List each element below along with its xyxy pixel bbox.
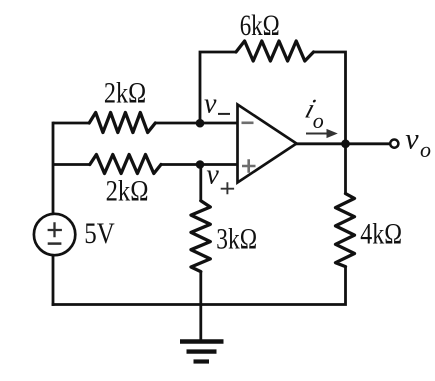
resistor R2 2k ohm bottom bbox=[90, 155, 161, 174]
arrow io bbox=[306, 133, 328, 135]
node v- dot bbox=[196, 119, 205, 128]
svg-text:3kΩ: 3kΩ bbox=[216, 222, 257, 255]
op-amp plus input sign bbox=[242, 159, 256, 173]
wire left rail upper (node A to source) bbox=[52, 122, 55, 214]
svg-text:o: o bbox=[313, 108, 324, 133]
wire left rail lower (source to bottom rail) bbox=[52, 255, 55, 306]
svg-text:v: v bbox=[206, 160, 219, 191]
label v- subscript bar bbox=[218, 113, 230, 115]
op-amp minus input sign bbox=[242, 122, 254, 125]
resistor R5 3k ohm bbox=[191, 201, 210, 272]
source plus sign bbox=[48, 222, 62, 237]
wire ground stem bbox=[199, 304, 202, 342]
terminal vo open circle bbox=[390, 140, 398, 148]
wire feedback top right and right vertical bbox=[313, 52, 346, 144]
svg-text:v: v bbox=[204, 89, 217, 120]
node output dot bbox=[341, 139, 350, 148]
node v+ dot bbox=[196, 160, 205, 169]
svg-text:o: o bbox=[420, 137, 431, 162]
wire bottom input v+ right segment bbox=[161, 163, 238, 166]
wire bottom input v+ left segment bbox=[53, 163, 90, 166]
source V1 5V circle bbox=[34, 214, 75, 255]
wire feedback left vertical and top left bbox=[200, 52, 237, 125]
wire 4k branch bottom + bottom rail bbox=[52, 266, 346, 305]
resistor R4 4k ohm bbox=[336, 194, 355, 267]
wire 3k branch bottom bbox=[199, 271, 202, 305]
wire top input v- left segment bbox=[53, 122, 90, 125]
svg-text:5V: 5V bbox=[84, 216, 115, 250]
wire 3k branch top bbox=[199, 165, 202, 202]
op-amp U1 triangle bbox=[238, 105, 297, 183]
svg-text:2kΩ: 2kΩ bbox=[104, 76, 146, 109]
label v+ subscript plus bbox=[221, 182, 234, 194]
ground bbox=[180, 342, 224, 362]
svg-text:6kΩ: 6kΩ bbox=[240, 8, 280, 42]
source minus sign bbox=[48, 242, 62, 245]
resistor R3 6k ohm feedback bbox=[236, 41, 314, 61]
resistor R1 2k ohm top bbox=[89, 113, 155, 133]
wire 4k branch top bbox=[344, 144, 347, 194]
svg-text:2kΩ: 2kΩ bbox=[106, 174, 149, 207]
wire output bbox=[296, 142, 390, 145]
wire top input v- right segment bbox=[155, 122, 238, 125]
svg-text:v: v bbox=[405, 123, 419, 156]
svg-text:4kΩ: 4kΩ bbox=[360, 217, 402, 250]
